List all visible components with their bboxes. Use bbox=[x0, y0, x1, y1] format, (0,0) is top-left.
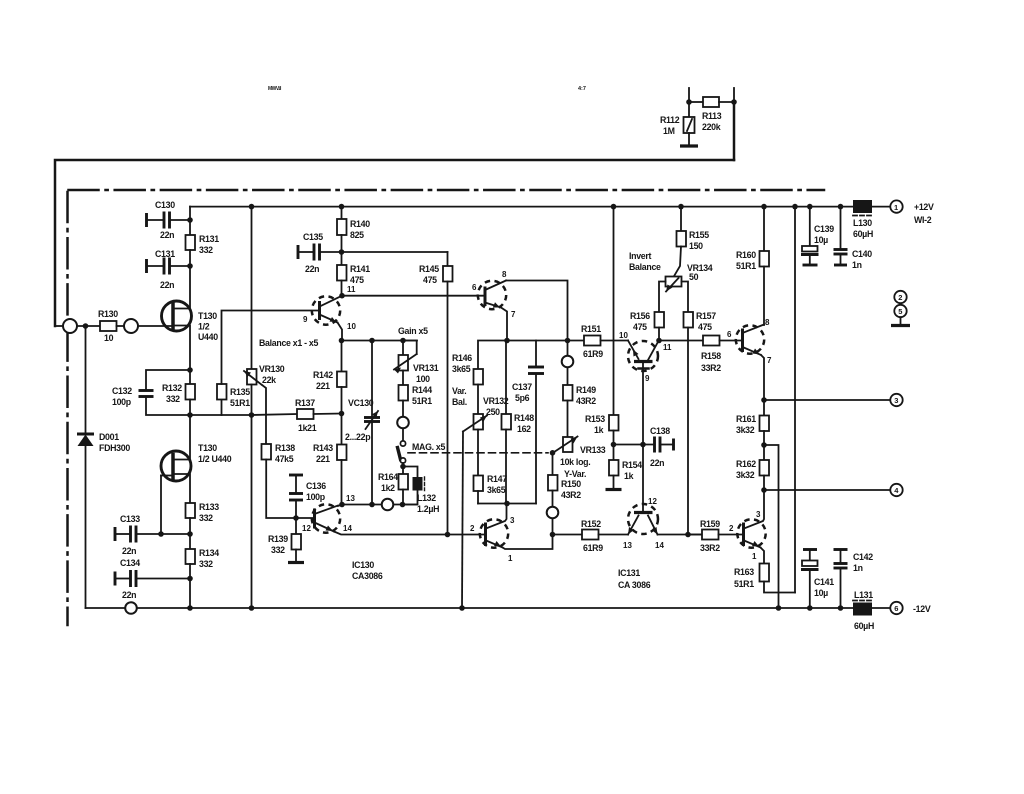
test point circle pin13 wire bbox=[382, 499, 394, 511]
resistor R159 bbox=[688, 519, 744, 553]
svg-text:60µH: 60µH bbox=[854, 621, 874, 631]
svg-text:R143: R143 bbox=[313, 443, 333, 453]
wire R113 top stub right bbox=[733, 88, 735, 102]
svg-text:6: 6 bbox=[472, 283, 477, 292]
wire input to R130 bbox=[77, 325, 100, 327]
svg-text:R134: R134 bbox=[199, 548, 219, 558]
capacitor C142 bbox=[834, 550, 874, 609]
node rail R153 bbox=[611, 204, 617, 210]
svg-text:100p: 100p bbox=[112, 397, 132, 407]
svg-text:Balance x1 - x5: Balance x1 - x5 bbox=[259, 338, 318, 348]
svg-text:61R9: 61R9 bbox=[583, 543, 603, 553]
svg-text:14: 14 bbox=[343, 524, 352, 533]
svg-text:51R1: 51R1 bbox=[734, 579, 754, 589]
svg-text:R141: R141 bbox=[350, 264, 370, 274]
svg-text:6: 6 bbox=[894, 604, 898, 613]
svg-text:R153: R153 bbox=[585, 414, 605, 424]
svg-text:1: 1 bbox=[894, 203, 898, 212]
wire R113 top stub left bbox=[688, 88, 690, 102]
svg-text:8: 8 bbox=[765, 318, 770, 327]
node rail C141 bbox=[807, 605, 813, 611]
node gain VC130 bbox=[369, 338, 375, 344]
svg-text:2: 2 bbox=[470, 524, 475, 533]
svg-text:1n: 1n bbox=[852, 260, 862, 270]
svg-text:11: 11 bbox=[663, 343, 672, 352]
resistor R144 bbox=[399, 371, 433, 418]
capacitor C137 bbox=[512, 341, 544, 504]
svg-text:VR133: VR133 bbox=[580, 445, 606, 455]
svg-text:221: 221 bbox=[316, 454, 330, 464]
wire C130 node to rail bbox=[189, 207, 191, 220]
node T130a source bbox=[187, 367, 193, 373]
svg-text:4:7: 4:7 bbox=[578, 86, 586, 92]
svg-text:250: 250 bbox=[486, 407, 500, 417]
wire to terminal 1 bbox=[872, 206, 890, 208]
svg-text:51R1: 51R1 bbox=[230, 398, 250, 408]
svg-text:1k: 1k bbox=[594, 425, 604, 435]
svg-text:R148: R148 bbox=[514, 413, 534, 423]
svg-text:+12V: +12V bbox=[914, 202, 934, 212]
wire supply bus x795 bbox=[794, 207, 796, 593]
capacitor C133 bbox=[115, 514, 190, 556]
test point circle R150 bbox=[547, 507, 559, 535]
node gain wire left bbox=[339, 338, 345, 344]
svg-text:MWV.il: MWV.il bbox=[268, 86, 282, 92]
node R137 right bbox=[339, 411, 345, 417]
svg-text:1.2µH: 1.2µH bbox=[417, 504, 439, 514]
svg-text:332: 332 bbox=[199, 245, 213, 255]
shield dash-dot vertical bbox=[66, 192, 69, 625]
wire feedback bus x778 bbox=[764, 445, 779, 608]
svg-text:10µ: 10µ bbox=[814, 235, 828, 245]
svg-text:IC131: IC131 bbox=[618, 568, 640, 578]
svg-text:60µH: 60µH bbox=[853, 229, 873, 239]
node R145 base bbox=[445, 532, 451, 538]
node VC130 bottom bbox=[369, 502, 375, 508]
svg-text:VR132: VR132 bbox=[483, 396, 509, 406]
capacitor C141 bbox=[801, 550, 834, 609]
node pin11 R156 bbox=[656, 338, 662, 344]
capacitor C135 bbox=[298, 232, 342, 274]
svg-text:475: 475 bbox=[350, 275, 364, 285]
node rail VR130 bbox=[249, 605, 255, 611]
resistor R134 bbox=[186, 534, 220, 579]
svg-text:22n: 22n bbox=[122, 546, 136, 556]
diode D001 FDH300 bbox=[77, 432, 130, 453]
svg-text:10: 10 bbox=[104, 333, 114, 343]
svg-text:D001: D001 bbox=[99, 432, 119, 442]
svg-text:R157: R157 bbox=[696, 311, 716, 321]
resistor R148 bbox=[502, 341, 535, 504]
svg-text:150: 150 bbox=[689, 241, 703, 251]
test point circle bottom rail bbox=[125, 602, 137, 614]
potentiometer VR133 bbox=[553, 437, 606, 480]
svg-text:C132: C132 bbox=[112, 386, 132, 396]
inductor L130 bbox=[853, 200, 873, 239]
node rail bus x795 bbox=[792, 204, 798, 210]
svg-text:CA 3086: CA 3086 bbox=[618, 580, 651, 590]
svg-text:33R2: 33R2 bbox=[701, 363, 721, 373]
node rail R162 bus bbox=[776, 605, 782, 611]
terminal 5 bbox=[891, 305, 910, 326]
transistor IC131 Q d (pins 2,3,1) bbox=[729, 490, 766, 564]
node VR130 R137 bbox=[249, 412, 255, 418]
svg-text:IC130: IC130 bbox=[352, 560, 374, 570]
inductor L131 bbox=[853, 590, 874, 631]
svg-text:7: 7 bbox=[511, 310, 516, 319]
resistor R140 bbox=[337, 207, 370, 252]
svg-text:R155: R155 bbox=[689, 230, 709, 240]
wire R112 vertical bbox=[688, 102, 690, 117]
resistor R149 bbox=[563, 368, 596, 438]
node C140 bbox=[838, 204, 844, 210]
node R157 bus pin14 bbox=[685, 532, 691, 538]
wire left border diode to rail corner bbox=[85, 446, 87, 608]
svg-text:WI-2: WI-2 bbox=[914, 215, 932, 225]
wire to terminal 4 bbox=[764, 489, 890, 491]
transistor IC130 Q a (pins 9,10,11) bbox=[303, 296, 356, 341]
svg-text:R130: R130 bbox=[98, 309, 118, 319]
svg-text:1: 1 bbox=[508, 554, 513, 563]
svg-text:Gain x5: Gain x5 bbox=[398, 326, 428, 336]
svg-text:R138: R138 bbox=[275, 443, 295, 453]
switch MAG x5 bbox=[397, 417, 445, 467]
page artifact mark bbox=[268, 86, 282, 92]
wire R113 node bbox=[689, 101, 703, 103]
resistor R147 bbox=[474, 430, 508, 504]
svg-text:825: 825 bbox=[350, 230, 364, 240]
resistor R146 bbox=[452, 353, 483, 414]
svg-text:R161: R161 bbox=[736, 414, 756, 424]
svg-text:220k: 220k bbox=[702, 122, 721, 132]
svg-text:6: 6 bbox=[727, 330, 732, 339]
capacitor C136 bbox=[289, 475, 326, 518]
wire loop bottom bbox=[478, 503, 536, 505]
svg-text:1/2: 1/2 bbox=[198, 322, 210, 332]
svg-text:13: 13 bbox=[346, 494, 355, 503]
svg-text:13: 13 bbox=[623, 541, 632, 550]
resistor R151 bbox=[568, 324, 629, 359]
wire pin13 node bbox=[342, 504, 381, 506]
wire VR134 left to R156 bbox=[659, 282, 666, 313]
resistor R112 bbox=[660, 115, 695, 136]
svg-text:3: 3 bbox=[756, 510, 761, 519]
resistor R132 bbox=[162, 370, 195, 415]
node input split bbox=[83, 323, 89, 329]
node C131 bbox=[187, 263, 193, 269]
wire VR130 to bottom rail bbox=[251, 385, 253, 609]
svg-text:332: 332 bbox=[271, 545, 285, 555]
input terminal circle bbox=[63, 319, 77, 333]
wire C135 node to R145 bbox=[342, 251, 448, 253]
svg-text:61R9: 61R9 bbox=[583, 349, 603, 359]
node rail R160 bbox=[761, 204, 767, 210]
svg-text:3k32: 3k32 bbox=[736, 425, 755, 435]
wire R132 node to VR130 column bbox=[190, 414, 252, 416]
potentiometer VR132 bbox=[462, 396, 509, 608]
svg-text:R162: R162 bbox=[736, 459, 756, 469]
resistor R152 bbox=[553, 519, 629, 553]
node C139 bbox=[807, 204, 813, 210]
svg-text:R147: R147 bbox=[487, 474, 507, 484]
wire T130b gate down to C133 bbox=[160, 476, 162, 535]
resistor R150 bbox=[548, 453, 581, 507]
svg-text:43R2: 43R2 bbox=[561, 490, 581, 500]
svg-text:1n: 1n bbox=[853, 563, 863, 573]
svg-text:C141: C141 bbox=[814, 577, 834, 587]
svg-text:R160: R160 bbox=[736, 250, 756, 260]
svg-text:1M: 1M bbox=[663, 126, 675, 136]
svg-text:FDH300: FDH300 bbox=[99, 443, 130, 453]
dashed coupling line MAG-VR133 bbox=[408, 452, 548, 454]
node output 3 bbox=[761, 397, 767, 403]
label var bal bbox=[452, 386, 467, 407]
resistor R162 bbox=[736, 445, 769, 490]
svg-text:VR131: VR131 bbox=[413, 363, 439, 373]
svg-text:221: 221 bbox=[316, 381, 330, 391]
resistor R160 bbox=[736, 207, 769, 325]
svg-text:R113: R113 bbox=[702, 111, 722, 121]
wire gate T130a bbox=[138, 325, 172, 327]
terminal 3 bbox=[890, 394, 902, 406]
resistor R161 bbox=[736, 400, 769, 445]
svg-text:R163: R163 bbox=[734, 567, 754, 577]
node switch R164 bbox=[400, 464, 406, 470]
svg-text:2: 2 bbox=[729, 524, 734, 533]
svg-text:R112: R112 bbox=[660, 115, 680, 125]
resistor R154 bbox=[606, 445, 643, 490]
resistor R139 bbox=[268, 518, 304, 563]
svg-text:CA3086: CA3086 bbox=[352, 571, 383, 581]
resistor R137 bbox=[252, 398, 342, 433]
svg-text:47k5: 47k5 bbox=[275, 454, 294, 464]
terminal 6 bbox=[890, 602, 931, 614]
svg-text:332: 332 bbox=[199, 513, 213, 523]
transistor IC130 Q d (pins 2,3,1) bbox=[470, 504, 553, 564]
svg-text:1k2: 1k2 bbox=[381, 483, 395, 493]
svg-text:C140: C140 bbox=[852, 249, 872, 259]
svg-text:475: 475 bbox=[423, 275, 437, 285]
svg-text:11: 11 bbox=[347, 285, 356, 294]
svg-text:5p6: 5p6 bbox=[515, 393, 530, 403]
svg-text:1k: 1k bbox=[624, 471, 634, 481]
svg-text:R154: R154 bbox=[622, 460, 642, 470]
label IC131 bbox=[618, 568, 651, 590]
svg-text:1k21: 1k21 bbox=[298, 423, 317, 433]
svg-text:10k log.: 10k log. bbox=[560, 457, 590, 467]
svg-text:1/2 U440: 1/2 U440 bbox=[198, 454, 232, 464]
svg-text:100: 100 bbox=[416, 374, 430, 384]
resistor R163 bbox=[734, 564, 795, 593]
ground R112 bbox=[680, 133, 698, 146]
svg-text:MAG. x5: MAG. x5 bbox=[412, 442, 446, 452]
resistor R155 bbox=[674, 207, 710, 277]
svg-text:10: 10 bbox=[619, 331, 628, 340]
wire gain x5 node bbox=[342, 340, 418, 342]
node pin11 collector bbox=[339, 285, 356, 299]
svg-text:475: 475 bbox=[633, 322, 647, 332]
wire +12V rail bbox=[190, 206, 854, 208]
test point circle below R151 node bbox=[562, 341, 574, 368]
resistor R153 bbox=[585, 207, 619, 445]
svg-text:162: 162 bbox=[517, 424, 531, 434]
svg-text:Invert: Invert bbox=[629, 251, 652, 261]
node rail R155 bbox=[678, 204, 684, 210]
node rail C142 bbox=[838, 605, 844, 611]
svg-text:10: 10 bbox=[347, 322, 356, 331]
svg-text:R151: R151 bbox=[581, 324, 601, 334]
node R161 R162 bbox=[761, 442, 767, 448]
svg-text:R152: R152 bbox=[581, 519, 601, 529]
svg-text:10µ: 10µ bbox=[814, 588, 828, 598]
svg-text:R146: R146 bbox=[452, 353, 472, 363]
test point circle after R130 bbox=[117, 319, 139, 333]
node R151 left bbox=[565, 338, 571, 344]
svg-text:3: 3 bbox=[510, 516, 515, 525]
svg-text:9: 9 bbox=[303, 315, 308, 324]
resistor R113 bbox=[702, 97, 734, 132]
resistor R133 bbox=[186, 502, 220, 534]
svg-text:1: 1 bbox=[752, 552, 757, 561]
resistor R156 bbox=[630, 311, 664, 341]
capacitor VC130 variable bbox=[345, 341, 380, 505]
svg-text:22n: 22n bbox=[160, 230, 174, 240]
svg-text:Bal.: Bal. bbox=[452, 397, 467, 407]
svg-text:51R1: 51R1 bbox=[412, 396, 432, 406]
capacitor C131 bbox=[147, 249, 191, 290]
svg-text:R139: R139 bbox=[268, 534, 288, 544]
svg-text:T130: T130 bbox=[198, 311, 217, 321]
wire border right drop bbox=[733, 102, 736, 160]
capacitor C140 bbox=[834, 207, 873, 270]
wire loop top bbox=[478, 341, 568, 370]
svg-text:R164: R164 bbox=[378, 472, 398, 482]
transistor IC130 Q b (pins 12,13,14) bbox=[296, 504, 486, 534]
svg-text:3k65: 3k65 bbox=[452, 364, 471, 374]
svg-text:C135: C135 bbox=[303, 232, 323, 242]
svg-text:22n: 22n bbox=[160, 280, 174, 290]
svg-text:C136: C136 bbox=[306, 481, 326, 491]
node C133 R133 bbox=[187, 531, 193, 537]
svg-text:T130: T130 bbox=[198, 443, 217, 453]
node gain VR131 bbox=[400, 338, 406, 344]
node junction R112/R113 left bbox=[686, 99, 692, 105]
outer border top bbox=[55, 160, 734, 326]
svg-text:332: 332 bbox=[199, 559, 213, 569]
svg-text:33R2: 33R2 bbox=[700, 543, 720, 553]
node C134 bbox=[187, 576, 193, 582]
svg-text:3k65: 3k65 bbox=[487, 485, 506, 495]
svg-text:C142: C142 bbox=[853, 552, 873, 562]
node C133 gate bbox=[158, 531, 164, 537]
resistor R157 bbox=[684, 311, 717, 535]
node R153 R154 bbox=[611, 442, 617, 448]
wire Q c collector to R151 node bbox=[506, 281, 568, 341]
svg-text:R135: R135 bbox=[230, 387, 250, 397]
transistor IC131 Q c (pins 6,7,8) bbox=[727, 318, 772, 400]
svg-text:C138: C138 bbox=[650, 426, 670, 436]
terminal 2 bbox=[894, 291, 906, 303]
shield dash-dot horizontal bbox=[69, 189, 825, 192]
wire to terminal 6 bbox=[872, 607, 890, 609]
node loop bottom collector bbox=[504, 501, 510, 507]
node rail VR130 top bbox=[249, 204, 255, 210]
svg-text:475: 475 bbox=[698, 322, 712, 332]
node R132 bottom bbox=[187, 412, 193, 418]
wire pin14 to R159 node bbox=[658, 534, 703, 536]
svg-text:C134: C134 bbox=[120, 558, 140, 568]
svg-text:9: 9 bbox=[645, 374, 650, 383]
svg-text:R137: R137 bbox=[295, 398, 315, 408]
potentiometer VR134 bbox=[666, 263, 713, 292]
capacitor C130 bbox=[147, 200, 191, 240]
page artifact mark 4:7 bbox=[578, 86, 586, 92]
svg-text:22n: 22n bbox=[650, 458, 664, 468]
svg-text:100p: 100p bbox=[306, 492, 326, 502]
svg-text:22n: 22n bbox=[122, 590, 136, 600]
resistor R164 bbox=[378, 467, 408, 505]
wire R153 node to emitter bbox=[614, 444, 654, 446]
svg-text:R149: R149 bbox=[576, 385, 596, 395]
svg-text:R142: R142 bbox=[313, 370, 333, 380]
capacitor C132 bbox=[112, 370, 190, 415]
resistor R130 bbox=[98, 309, 118, 343]
resistor R138 bbox=[262, 443, 297, 518]
svg-text:VC130: VC130 bbox=[348, 398, 374, 408]
svg-text:R140: R140 bbox=[350, 219, 370, 229]
node emitter Q c bbox=[504, 338, 510, 344]
capacitor C139 bbox=[801, 207, 834, 265]
wire -12V bottom rail bbox=[86, 607, 855, 609]
transistor T130a (FET 1/2 U440) bbox=[162, 266, 219, 370]
svg-text:50: 50 bbox=[689, 272, 699, 282]
svg-text:-12V: -12V bbox=[913, 604, 931, 614]
terminal 4 bbox=[890, 484, 902, 496]
svg-text:51R1: 51R1 bbox=[736, 261, 756, 271]
svg-text:14: 14 bbox=[655, 541, 664, 550]
svg-text:R150: R150 bbox=[561, 479, 581, 489]
node rail R140 bbox=[339, 204, 345, 210]
svg-text:R131: R131 bbox=[199, 234, 219, 244]
svg-text:12: 12 bbox=[648, 497, 657, 506]
svg-text:8: 8 bbox=[502, 270, 507, 279]
svg-text:VR130: VR130 bbox=[259, 364, 285, 374]
node output 4 bbox=[761, 487, 767, 493]
resistor R142 bbox=[313, 341, 347, 414]
svg-text:R144: R144 bbox=[412, 385, 432, 395]
svg-text:7: 7 bbox=[767, 356, 772, 365]
potentiometer VR130 bbox=[244, 207, 285, 444]
resistor R141 bbox=[337, 252, 370, 296]
svg-text:43R2: 43R2 bbox=[576, 396, 596, 406]
svg-text:3: 3 bbox=[894, 396, 898, 405]
wire left border down from input bbox=[85, 326, 87, 433]
node junction R113 right bbox=[731, 99, 737, 105]
svg-text:L132: L132 bbox=[417, 493, 436, 503]
wire to terminal 3 bbox=[764, 399, 890, 401]
svg-text:L131: L131 bbox=[854, 590, 873, 600]
svg-text:22k: 22k bbox=[262, 375, 276, 385]
terminal 1 bbox=[890, 200, 934, 225]
svg-text:R132: R132 bbox=[162, 383, 182, 393]
potentiometer VR131 bbox=[394, 341, 439, 385]
node rail R134 bbox=[187, 605, 193, 611]
node R164 bottom bbox=[400, 502, 406, 508]
node VR133 wiper dashed line bbox=[550, 450, 556, 456]
transistor T130b (FET 1/2 U440) bbox=[161, 415, 232, 503]
svg-text:2: 2 bbox=[898, 293, 902, 302]
node rail VR132 wiper bbox=[459, 605, 465, 611]
